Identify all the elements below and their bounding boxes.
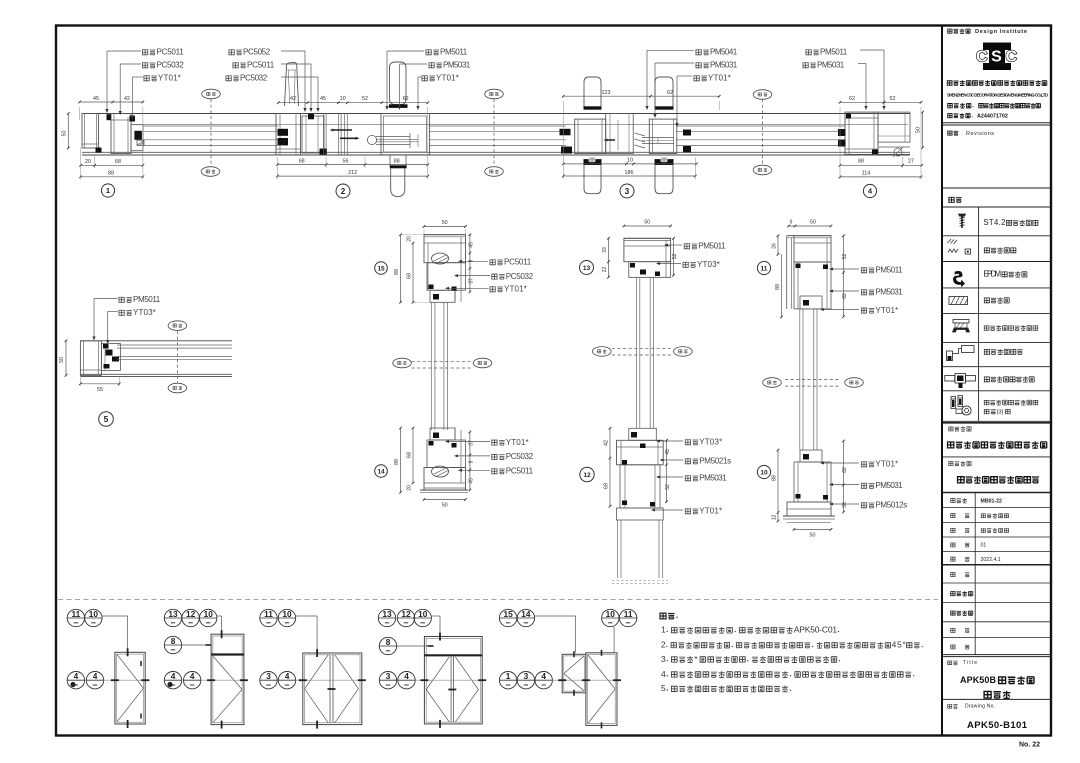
- svg-text:11: 11: [761, 265, 768, 272]
- svg-text:PC5032: PC5032: [506, 272, 534, 281]
- svg-text:PM5011: PM5011: [440, 48, 468, 57]
- svg-text:14: 14: [521, 609, 531, 619]
- detail 4 door jamb section: [838, 112, 910, 157]
- indoor/outdoor separator column 15/14: [393, 358, 492, 368]
- 设计单位 Design Institute: [948, 29, 952, 33]
- column 11 labels: [820, 266, 903, 315]
- svg-text:APK50-C01: APK50-C01: [794, 625, 838, 635]
- svg-text:50: 50: [644, 220, 650, 226]
- detail 15 head section: [424, 235, 466, 303]
- svg-text:62: 62: [842, 293, 848, 299]
- detail 4 dimensions: [839, 96, 924, 179]
- svg-text:9: 9: [790, 220, 793, 226]
- svg-text:88: 88: [775, 284, 781, 290]
- legend icon window hinge: [953, 320, 970, 333]
- svg-text:3: 3: [661, 654, 666, 664]
- svg-text:PC5011: PC5011: [157, 48, 185, 57]
- svg-text:YT01*: YT01*: [504, 285, 528, 294]
- svg-text:YT01*: YT01*: [436, 74, 460, 83]
- top band long horizontal rails: [82, 114, 910, 156]
- 建设单位 client: [949, 462, 953, 466]
- svg-text:PC5011: PC5011: [504, 258, 532, 267]
- svg-text:3: 3: [266, 671, 271, 681]
- svg-text:PM5011: PM5011: [820, 48, 848, 57]
- svg-text:68: 68: [299, 159, 305, 165]
- column 15 labels: [445, 258, 534, 294]
- svg-text:114: 114: [862, 171, 871, 177]
- column 10 labels: [820, 460, 907, 510]
- svg-text:38: 38: [842, 502, 848, 508]
- door handle bar detail 2: [390, 62, 407, 105]
- svg-text:2: 2: [661, 641, 666, 650]
- detail 1 bubble: [101, 184, 114, 197]
- svg-text:11: 11: [264, 609, 273, 619]
- indoor/outdoor separator column 11/10: [763, 378, 864, 388]
- svg-text:14: 14: [377, 468, 385, 475]
- detail 5 door jamb horizontal section: [80, 341, 232, 377]
- svg-text:56: 56: [343, 159, 349, 165]
- svg-text:12: 12: [771, 515, 777, 521]
- detail 14 sill section: [420, 428, 468, 492]
- bubble 12: [580, 467, 594, 481]
- svg-text:10: 10: [627, 158, 633, 164]
- detail 11 head section: [787, 236, 831, 309]
- detail 3 labels: [645, 48, 737, 128]
- indoor/outdoor separator 2: [485, 89, 504, 176]
- svg-text:PC5032: PC5032: [506, 452, 534, 461]
- svg-text:50: 50: [62, 131, 68, 137]
- 图号 drawing number: [948, 704, 952, 708]
- svg-text:212: 212: [348, 170, 357, 176]
- svg-text:YT03*: YT03*: [699, 438, 723, 447]
- svg-text:2022.4.1: 2022.4.1: [981, 557, 1001, 563]
- svg-text:20: 20: [85, 159, 91, 165]
- legend icon setting block: [949, 297, 968, 305]
- svg-text:PM5031: PM5031: [699, 474, 727, 483]
- svg-text:22: 22: [602, 267, 608, 273]
- company names: [947, 81, 952, 86]
- elevation group 4 double door with transom: [378, 609, 486, 728]
- elevation group 2 door with transom: [164, 609, 248, 729]
- legend icon window handle: [947, 346, 975, 361]
- detail 4 bubble: [863, 184, 876, 197]
- title block divider: [941, 26, 943, 736]
- indoor/outdoor separator 1: [201, 89, 220, 176]
- svg-text:PM5031: PM5031: [710, 61, 738, 70]
- notes 说明: [660, 613, 923, 693]
- svg-text:12: 12: [401, 609, 411, 619]
- svg-text:50: 50: [916, 127, 922, 133]
- svg-text:PC5032: PC5032: [157, 61, 185, 70]
- svg-text:37: 37: [469, 278, 475, 284]
- svg-text:52: 52: [362, 96, 368, 102]
- svg-text:Drawing No.: Drawing No.: [965, 704, 995, 710]
- svg-text:88: 88: [589, 158, 595, 164]
- svg-text:10: 10: [760, 469, 768, 476]
- svg-text:10: 10: [418, 609, 428, 619]
- bubble 15: [375, 262, 388, 275]
- svg-text:45: 45: [469, 478, 475, 484]
- svg-text:10: 10: [340, 96, 346, 102]
- svg-text:PM5011: PM5011: [875, 266, 903, 275]
- detail 1 dimensions: [62, 96, 145, 179]
- svg-text:CSC: CSC: [976, 49, 1017, 66]
- indoor/outdoor separator 3: [753, 90, 772, 175]
- indoor/outdoor separator detail 5: [168, 321, 187, 393]
- detail 1 labels: [105, 48, 184, 121]
- svg-text:11: 11: [624, 609, 633, 619]
- svg-text:Title: Title: [963, 660, 977, 666]
- bubble 10: [757, 465, 770, 478]
- column 13 labels: [656, 242, 726, 270]
- svg-text:68: 68: [407, 452, 413, 458]
- svg-text:PM5011: PM5011: [133, 295, 161, 304]
- detail 2 dimensions: [276, 96, 429, 179]
- svg-text:62: 62: [849, 96, 855, 102]
- svg-text:62: 62: [403, 96, 409, 102]
- svg-text:88: 88: [858, 159, 864, 165]
- indoor/outdoor separator column 13/12: [593, 347, 693, 357]
- svg-text:50: 50: [59, 357, 65, 363]
- svg-text:5: 5: [104, 414, 109, 424]
- svg-text:42: 42: [290, 96, 296, 102]
- svg-text:11: 11: [72, 609, 81, 619]
- svg-text:45°: 45°: [892, 641, 906, 650]
- svg-text:3: 3: [625, 187, 630, 196]
- svg-text:PC5011: PC5011: [506, 467, 534, 476]
- svg-text:5: 5: [661, 683, 666, 693]
- svg-text:13: 13: [583, 265, 591, 272]
- svg-text:APK50-B101: APK50-B101: [967, 720, 1028, 731]
- svg-text:8: 8: [171, 636, 176, 646]
- detail 3 dimensions: [562, 90, 721, 179]
- svg-text:45: 45: [320, 96, 326, 102]
- svg-text:A244071702: A244071702: [977, 114, 1008, 120]
- detail 3 double door astragal section: [560, 77, 692, 194]
- svg-text:62: 62: [667, 90, 673, 96]
- column 14 labels: [445, 438, 534, 476]
- svg-text:52: 52: [672, 254, 678, 260]
- svg-text:YT03*: YT03*: [697, 260, 721, 269]
- svg-text:4: 4: [404, 671, 409, 681]
- svg-text:50: 50: [810, 220, 816, 226]
- 图名 drawing title: [948, 661, 952, 665]
- svg-text:4: 4: [661, 669, 666, 679]
- svg-text:88: 88: [394, 459, 400, 465]
- svg-text:186: 186: [625, 170, 634, 176]
- svg-text:50: 50: [442, 503, 448, 509]
- svg-text:PC5032: PC5032: [240, 74, 268, 83]
- svg-text:MB01-22: MB01-22: [981, 498, 1002, 504]
- svg-text:YT01*: YT01*: [699, 507, 723, 516]
- svg-text:10: 10: [606, 609, 616, 619]
- svg-text:45: 45: [93, 96, 99, 102]
- svg-text:YT03*: YT03*: [133, 308, 157, 317]
- detail 10 sill section: [783, 450, 835, 523]
- svg-text:55: 55: [97, 387, 103, 393]
- detail 5 labels: [92, 295, 160, 344]
- svg-text:88: 88: [771, 475, 777, 481]
- svg-text:10: 10: [282, 609, 292, 619]
- svg-text:[3]: [3]: [997, 410, 1004, 416]
- svg-text:4: 4: [171, 671, 176, 681]
- svg-text:PM5012s: PM5012s: [875, 501, 907, 510]
- svg-text:33: 33: [602, 247, 608, 253]
- svg-text:PM5041: PM5041: [710, 48, 738, 57]
- info table rows: [943, 506, 1050, 508]
- svg-text:YT01*: YT01*: [506, 438, 530, 447]
- detail 5 bubble: [99, 412, 114, 427]
- svg-text:52: 52: [842, 254, 848, 260]
- svg-text:1: 1: [661, 625, 666, 635]
- detail 4 labels: [803, 48, 886, 111]
- svg-text:PM5011: PM5011: [698, 242, 726, 251]
- legend icon door double handle: [945, 374, 976, 389]
- svg-text:PM5021s: PM5021s: [699, 457, 731, 466]
- svg-text:37: 37: [469, 440, 475, 446]
- 图例 legend header: [949, 197, 954, 202]
- elevation group 3 double door: [260, 609, 366, 729]
- svg-text:88: 88: [661, 158, 667, 164]
- svg-text:YT01*: YT01*: [875, 460, 899, 469]
- svg-text:YT01*: YT01*: [708, 74, 732, 83]
- svg-text:YT01*: YT01*: [158, 74, 182, 83]
- detail 2 bubble: [336, 184, 350, 198]
- svg-text:62: 62: [842, 467, 848, 473]
- sealant arrows detail 2: [333, 129, 352, 131]
- svg-text:YT01*: YT01*: [875, 306, 899, 315]
- svg-text:88: 88: [394, 159, 400, 165]
- svg-text:50: 50: [810, 533, 816, 539]
- svg-text:13: 13: [168, 609, 178, 619]
- svg-text:9: 9: [469, 259, 475, 262]
- svg-text:15: 15: [503, 609, 513, 619]
- svg-text:68: 68: [407, 273, 413, 279]
- bubble 14: [375, 465, 388, 478]
- svg-text:PM5031: PM5031: [875, 288, 903, 297]
- dashed separator above elevations: [58, 599, 938, 601]
- column 12 labels: [651, 438, 731, 516]
- svg-text:15: 15: [377, 265, 385, 272]
- svg-text:PM5031: PM5031: [817, 61, 845, 70]
- title block: [943, 29, 1050, 749]
- CSC logo: [983, 43, 1011, 51]
- svg-text:8: 8: [386, 637, 391, 647]
- svg-text:SHENZHEN CSC DECORATION DESIGN: SHENZHEN CSC DECORATION DESIGN ENGINEERI…: [947, 93, 1048, 98]
- svg-text:27: 27: [908, 159, 914, 165]
- 工程名称 project name: [949, 427, 953, 431]
- svg-text:2: 2: [341, 187, 346, 196]
- svg-text:123: 123: [602, 90, 611, 96]
- svg-text:PC5052: PC5052: [243, 48, 271, 57]
- svg-text:45: 45: [469, 242, 475, 248]
- bubble 11: [757, 261, 770, 274]
- svg-text:12: 12: [186, 609, 196, 619]
- svg-text:20: 20: [407, 485, 413, 491]
- detail 1 window frame section: [82, 114, 144, 154]
- svg-text:52: 52: [890, 96, 896, 102]
- svg-text:4: 4: [190, 671, 195, 681]
- legend icon door hinge: [951, 396, 971, 416]
- bubble 13: [580, 261, 594, 275]
- svg-text:PC5011: PC5011: [247, 61, 275, 70]
- legend icon screw ST4.2: [959, 214, 966, 228]
- detail 2 mullion/door section: [276, 62, 430, 197]
- svg-text:52: 52: [665, 484, 671, 490]
- svg-text:3: 3: [524, 671, 529, 681]
- svg-text:ST4.2: ST4.2: [983, 218, 1005, 227]
- svg-text:88: 88: [394, 269, 400, 275]
- elevation group 1 single door: [67, 609, 150, 728]
- detail 12 mid-rail section: [612, 428, 668, 583]
- svg-text:26: 26: [771, 243, 777, 249]
- svg-text:4: 4: [93, 671, 98, 681]
- svg-text:Design Institute: Design Institute: [975, 29, 1027, 35]
- elevation group 5 door with side window: [499, 609, 636, 729]
- 备注 Revisions: [948, 131, 952, 135]
- svg-text:88: 88: [108, 171, 114, 177]
- svg-text:01: 01: [981, 543, 987, 549]
- svg-text:4: 4: [285, 671, 290, 681]
- svg-text:PM5031: PM5031: [875, 481, 903, 490]
- svg-text:PM5031: PM5031: [443, 61, 471, 70]
- svg-text:APK50B: APK50B: [960, 675, 997, 685]
- legend icon weather sealant: [948, 239, 971, 254]
- detail 5 dimensions: [59, 340, 121, 394]
- svg-text:42: 42: [124, 96, 130, 102]
- svg-text:42: 42: [603, 440, 609, 446]
- glass setting block detail 1: [137, 140, 144, 145]
- detail 13 head section: [624, 238, 671, 277]
- svg-text:EPDM: EPDM: [983, 270, 1001, 279]
- column 11/10 dimensions: [771, 220, 848, 539]
- svg-text:68: 68: [603, 483, 609, 489]
- glass unit column 13/12: [637, 277, 654, 428]
- svg-text:13: 13: [382, 609, 392, 619]
- column 13/12 dimensions: [602, 220, 678, 508]
- svg-text:10: 10: [204, 609, 214, 619]
- svg-text:20: 20: [407, 236, 413, 242]
- svg-text:1: 1: [506, 671, 511, 681]
- glass unit column 15/14: [431, 302, 447, 430]
- svg-text:9: 9: [469, 460, 475, 463]
- detail 2 left labels: [226, 48, 320, 113]
- detail 2 right labels: [385, 48, 470, 111]
- svg-text:3: 3: [386, 671, 391, 681]
- detail 3 bubble: [620, 184, 634, 198]
- legend icon EPDM gasket: [953, 271, 964, 286]
- svg-text:10: 10: [89, 609, 99, 619]
- column 15/14 dimensions: [394, 220, 475, 509]
- svg-text:50: 50: [442, 220, 448, 226]
- svg-text:Revisions: Revisions: [966, 131, 994, 137]
- svg-text:12: 12: [583, 472, 591, 479]
- svg-text:No. 22: No. 22: [1019, 742, 1040, 749]
- svg-text:68: 68: [115, 159, 121, 165]
- glass unit column 11/10: [800, 309, 817, 450]
- svg-text:4: 4: [74, 671, 79, 681]
- svg-text:45: 45: [665, 449, 671, 455]
- svg-text:4: 4: [541, 671, 546, 681]
